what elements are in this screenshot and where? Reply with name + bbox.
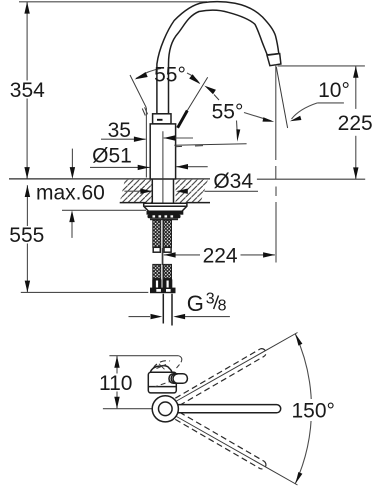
end bar: [150, 288, 176, 294]
spout arm: [178, 405, 281, 413]
svg-text:555: 555: [9, 224, 44, 247]
svg-text:55°: 55°: [154, 64, 186, 87]
svg-text:3: 3: [206, 291, 215, 308]
svg-text:max.60: max.60: [36, 182, 105, 205]
counter top line: [9, 178, 210, 180]
55 right leaders: [244, 113, 272, 122]
hose end nuts: [152, 279, 161, 290]
55 left arc + arrows: [136, 69, 161, 79]
spout arch: [157, 2, 279, 114]
dim 555 line: [26, 185, 28, 226]
dashed handle hook: [178, 356, 181, 363]
hub inner circle: [159, 402, 173, 416]
svg-text:Ø51: Ø51: [92, 144, 132, 167]
dim 224: [164, 254, 200, 256]
FRONT VIEW: [9, 2, 373, 326]
mounting nut: [147, 211, 184, 215]
svg-text:150°: 150°: [291, 400, 334, 423]
riser collar: [153, 114, 171, 124]
shank through counter: [151, 179, 153, 203]
svg-text:225: 225: [338, 112, 373, 135]
svg-text:354: 354: [10, 79, 45, 102]
solid lever handle: [178, 111, 188, 128]
counter hatch right: [176, 180, 208, 203]
svg-text:55°: 55°: [212, 100, 244, 123]
mounting washer plate: [144, 203, 187, 211]
label 150deg: [290, 399, 337, 421]
swivel radius lines: [177, 333, 298, 402]
stream 10deg line: [276, 67, 287, 128]
dim 354 line: [26, 2, 28, 81]
counter bottom line: [120, 202, 147, 204]
TOP VIEW: [99, 333, 337, 486]
stream vertical centerline: [275, 65, 277, 161]
top view body: [148, 372, 176, 393]
spout tip extension line: [278, 65, 365, 67]
hub outer circle: [152, 396, 178, 422]
dashed ghost arm upper: [153, 349, 266, 469]
dashed ghost arm lower: [175, 419, 260, 468]
dim 110: [116, 356, 118, 374]
150 arc: [295, 334, 311, 484]
G3/8 dim arrows: [129, 316, 151, 318]
svg-text:10°: 10°: [318, 79, 350, 102]
hub centerline: [103, 408, 186, 410]
svg-text:Ø34: Ø34: [213, 170, 253, 193]
ghost lever horizontal: [174, 144, 246, 145]
lever ring cap: [171, 374, 175, 383]
hose break fittings: [153, 247, 160, 252]
ghost lever up-left: [130, 75, 146, 108]
dome wavy top: [150, 366, 172, 373]
svg-text:G: G: [187, 291, 204, 316]
centerline in gap: [161, 248, 163, 265]
top extension line: [19, 1, 207, 3]
ghost handle dashes over body: [155, 380, 174, 387]
svg-text:8: 8: [218, 298, 227, 315]
lever pill: [169, 374, 187, 384]
counter hatch left: [120, 180, 153, 203]
110 top tick line: [109, 355, 178, 357]
bottom extension line: [21, 291, 149, 293]
faucet body: [150, 124, 175, 179]
dim 225: [355, 66, 357, 109]
hoses upper segment: [153, 220, 161, 247]
max.60 arrows: [71, 149, 73, 168]
body centerline: [162, 131, 164, 292]
svg-text:224: 224: [203, 244, 238, 267]
dashed handle ghost above body: [153, 361, 170, 369]
supply pipe G3/8: [162, 294, 164, 324]
ghost extension line: [145, 108, 147, 178]
max60 lower line: [62, 209, 146, 211]
hoses lower segment: [153, 264, 161, 278]
aerator: [267, 54, 281, 66]
collar tick: [157, 119, 163, 121]
svg-text:110: 110: [99, 372, 132, 395]
